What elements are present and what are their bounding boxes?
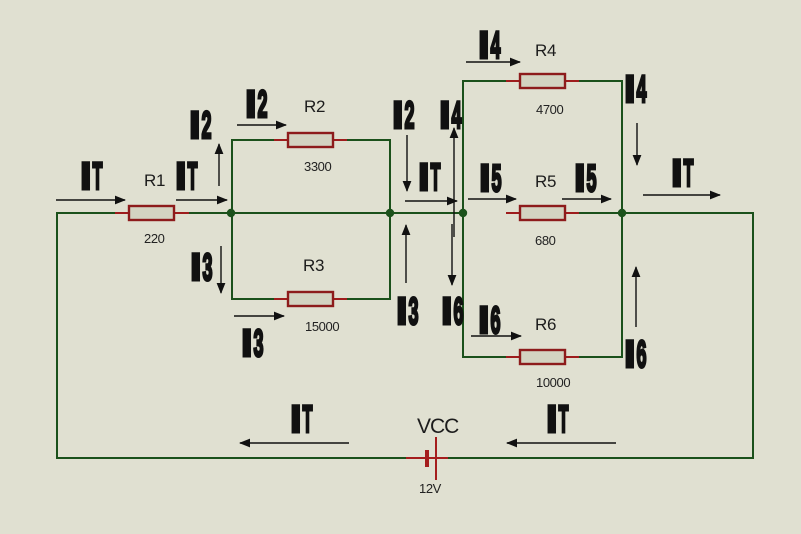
svg-text:3: 3 (254, 323, 264, 365)
wire main rail right segment (578, 212, 754, 214)
label I3 bottom (242, 323, 264, 365)
resistor R4 (506, 74, 579, 88)
node A (231,213) (227, 209, 235, 217)
svg-text:T: T (559, 399, 569, 441)
arrow I4 top (466, 61, 520, 63)
svg-text:T: T (684, 153, 694, 195)
label I6 right (625, 334, 647, 376)
wire R6 branch bottom (462, 356, 507, 358)
svg-text:T: T (93, 156, 103, 198)
label IT right (672, 153, 694, 195)
arrow I4 down right (636, 123, 638, 165)
svg-text:I: I (479, 25, 490, 67)
arrow IT left (56, 199, 125, 201)
label IT bottom right (547, 399, 569, 441)
svg-text:I: I (81, 156, 92, 198)
svg-text:5: 5 (587, 158, 597, 200)
svg-text:I: I (246, 84, 257, 126)
arrow I2 down right (406, 135, 408, 191)
wire R4 branch top (462, 80, 507, 82)
svg-text:220: 220 (144, 231, 165, 246)
svg-text:4700: 4700 (536, 102, 563, 117)
component name labels (144, 41, 556, 438)
label I5 right (575, 158, 597, 200)
label IT center (419, 157, 441, 199)
svg-text:T: T (303, 399, 313, 441)
label I2 top (246, 84, 268, 126)
arrow I3 up right (405, 225, 407, 283)
svg-text:R3: R3 (303, 256, 324, 275)
label I4 right (625, 69, 647, 111)
arrow IT center (405, 200, 457, 202)
arrow IT bottom left (240, 442, 349, 444)
arrow I4 up center (453, 128, 455, 237)
svg-text:3: 3 (409, 291, 419, 333)
label I6 mid (479, 300, 501, 342)
wire bottom rail right of battery (447, 457, 754, 459)
svg-text:I: I (190, 105, 201, 147)
arrow I5 left (468, 198, 516, 200)
arrows (56, 62, 720, 443)
svg-text:R6: R6 (535, 315, 556, 334)
svg-text:15000: 15000 (305, 319, 339, 334)
svg-text:R5: R5 (535, 172, 556, 191)
wire R2 branch top (231, 139, 275, 141)
arrow I5 right (562, 198, 611, 200)
svg-text:2: 2 (202, 105, 212, 147)
svg-text:I: I (442, 291, 453, 333)
value labels (144, 102, 570, 496)
wire right outer vertical (752, 212, 754, 459)
svg-text:I: I (672, 153, 683, 195)
svg-text:R1: R1 (144, 171, 165, 190)
wire main rail mid segments (187, 212, 463, 214)
svg-text:I: I (397, 291, 408, 333)
svg-text:R4: R4 (535, 41, 556, 60)
svg-text:680: 680 (535, 233, 556, 248)
label I5 left (480, 158, 502, 200)
svg-text:I: I (479, 300, 490, 342)
arrow IT right (643, 194, 720, 196)
svg-text:6: 6 (491, 300, 501, 342)
svg-text:3: 3 (203, 247, 213, 289)
wire bottom rail left of battery (56, 457, 406, 459)
wire R3 branch bottom (231, 298, 275, 300)
arrow IT after R1 (176, 199, 227, 201)
node C (463,213) (459, 209, 467, 217)
battery VCC (406, 437, 448, 480)
svg-text:I: I (575, 158, 586, 200)
label I4 center (440, 95, 462, 137)
svg-text:I: I (625, 334, 636, 376)
svg-text:12V: 12V (419, 481, 442, 496)
svg-text:10000: 10000 (536, 375, 570, 390)
resistor R2 (274, 133, 347, 147)
wire right loop right vertical (621, 80, 623, 358)
svg-text:R2: R2 (304, 97, 325, 116)
label I4 top (479, 25, 501, 67)
resistor R3 (274, 292, 347, 306)
svg-text:T: T (431, 157, 441, 199)
svg-text:I: I (440, 95, 451, 137)
wire left loop left vertical (231, 139, 233, 300)
svg-text:6: 6 (637, 334, 647, 376)
current labels (bold) (81, 25, 694, 441)
svg-text:6: 6 (454, 291, 464, 333)
svg-text:4: 4 (637, 69, 647, 111)
wire main rail left segment (57, 212, 116, 214)
svg-text:4: 4 (452, 95, 462, 137)
arrow I2 up left (218, 144, 220, 186)
label IT after R1 (176, 156, 198, 198)
label IT bottom left (291, 399, 313, 441)
svg-text:I: I (419, 157, 430, 199)
arrow I6 mid (471, 335, 521, 337)
svg-text:I: I (176, 156, 187, 198)
svg-text:VCC: VCC (417, 415, 459, 438)
label IT left (81, 156, 103, 198)
svg-text:2: 2 (258, 84, 268, 126)
resistor R6 (506, 350, 579, 364)
svg-text:3300: 3300 (304, 159, 331, 174)
wire right loop left vertical (462, 80, 464, 358)
svg-text:2: 2 (405, 95, 415, 137)
svg-text:I: I (291, 399, 302, 441)
svg-text:4: 4 (491, 25, 501, 67)
svg-text:I: I (191, 247, 202, 289)
label I3 rightloop (397, 291, 419, 333)
svg-text:I: I (547, 399, 558, 441)
svg-text:I: I (393, 95, 404, 137)
node D (622,213) (618, 209, 626, 217)
arrow I6 down left (451, 224, 453, 285)
arrow I2 top (237, 124, 286, 126)
arrow I3 down left (220, 246, 222, 293)
wire left loop right vertical (389, 139, 391, 300)
arrow I3 bottom (234, 315, 284, 317)
arrow I6 up right (635, 267, 637, 327)
label I3 left (191, 247, 213, 289)
svg-text:I: I (625, 69, 636, 111)
svg-text:5: 5 (492, 158, 502, 200)
node B (390,213) (386, 209, 394, 217)
label I6 left (442, 291, 464, 333)
resistor R5 (506, 206, 579, 220)
wire left outer vertical (56, 212, 58, 459)
svg-text:I: I (480, 158, 491, 200)
svg-text:I: I (242, 323, 253, 365)
arrow IT bottom right (507, 442, 616, 444)
label I2 right (393, 95, 415, 137)
svg-text:T: T (188, 156, 198, 198)
label I2 left (190, 105, 212, 147)
resistor R1 (115, 206, 189, 220)
